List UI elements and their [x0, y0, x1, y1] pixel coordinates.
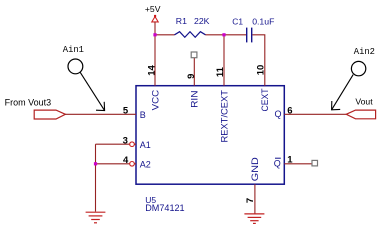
svg-text:REXT/CEXT: REXT/CEXT	[219, 90, 230, 143]
wire +5V stem	[154, 22, 156, 35]
wire stub pin 4	[134, 163, 136, 165]
wire pin 9 stub	[193, 58, 195, 86]
svg-text:DM74121: DM74121	[145, 203, 184, 213]
wire pin 4	[96, 163, 130, 165]
svg-text:9: 9	[186, 74, 197, 79]
svg-text:RIN: RIN	[190, 90, 201, 108]
overbar of Qbar	[275, 157, 281, 159]
svg-text:22K: 22K	[194, 16, 210, 26]
svg-text:0.1uF: 0.1uF	[252, 16, 274, 26]
wire pin 1 stub	[284, 163, 312, 165]
svg-text:3: 3	[123, 136, 128, 147]
svg-text:7: 7	[245, 198, 256, 203]
svg-text:B: B	[140, 110, 146, 120]
wire top bus left	[155, 34, 175, 36]
ground bottom	[244, 214, 264, 224]
svg-text:11: 11	[215, 66, 226, 77]
arrow Ain2 to wire	[332, 75, 354, 110]
svg-text:A2: A2	[140, 159, 151, 169]
junction at pin 4	[94, 162, 97, 165]
svg-text:R1: R1	[176, 16, 187, 26]
port From Vout3	[34, 110, 65, 119]
svg-text:C1: C1	[232, 16, 243, 26]
wire vertical A1/A2 to ground	[95, 144, 97, 211]
wire pin 11	[223, 35, 225, 86]
bubble pin 3	[130, 142, 135, 147]
svg-text:VCC: VCC	[150, 90, 161, 111]
no-connect square pin 9	[191, 52, 197, 58]
wire resistor to junction	[206, 34, 247, 36]
resistor R1	[175, 32, 206, 38]
no-connect square pin 1	[312, 160, 318, 166]
annotation circle Ain2	[351, 61, 365, 75]
svg-text:Ain1: Ain1	[63, 45, 84, 55]
bubble pin 4	[130, 162, 135, 167]
wire pin 14	[154, 35, 156, 86]
svg-text:CEXT: CEXT	[260, 88, 271, 111]
svg-text:Ain2: Ain2	[354, 47, 375, 57]
svg-text:Q: Q	[274, 158, 281, 168]
power symbol +5V	[152, 17, 158, 22]
IC U5 DM74121 body	[136, 86, 284, 185]
annotation circle Ain1	[68, 59, 83, 74]
svg-text:+5V: +5V	[145, 4, 161, 14]
svg-text:GND: GND	[250, 157, 261, 181]
svg-text:1: 1	[287, 154, 293, 165]
svg-text:4: 4	[123, 155, 129, 166]
wire pin 3	[96, 143, 130, 145]
svg-text:10: 10	[255, 65, 266, 76]
capacitor C1	[247, 28, 252, 43]
wire cap right to pin10 corner	[252, 35, 264, 86]
svg-text:Vout: Vout	[355, 96, 373, 106]
junction at pin 11	[222, 33, 225, 36]
junction at +5V	[153, 33, 156, 36]
wire pin 6 to port	[284, 113, 346, 115]
wire stub pin 3	[134, 143, 136, 145]
port Vout	[346, 110, 375, 119]
svg-text:5: 5	[123, 106, 129, 117]
arrow Ain1 to wire	[80, 72, 104, 110]
wire port to pin 5	[65, 113, 136, 115]
svg-text:A1: A1	[140, 140, 151, 150]
ground left	[86, 212, 106, 223]
svg-text:14: 14	[147, 65, 158, 76]
wire pin 7	[254, 184, 256, 213]
svg-text:From Vout3: From Vout3	[5, 97, 52, 107]
svg-text:6: 6	[287, 105, 292, 116]
svg-text:Q: Q	[274, 109, 281, 119]
